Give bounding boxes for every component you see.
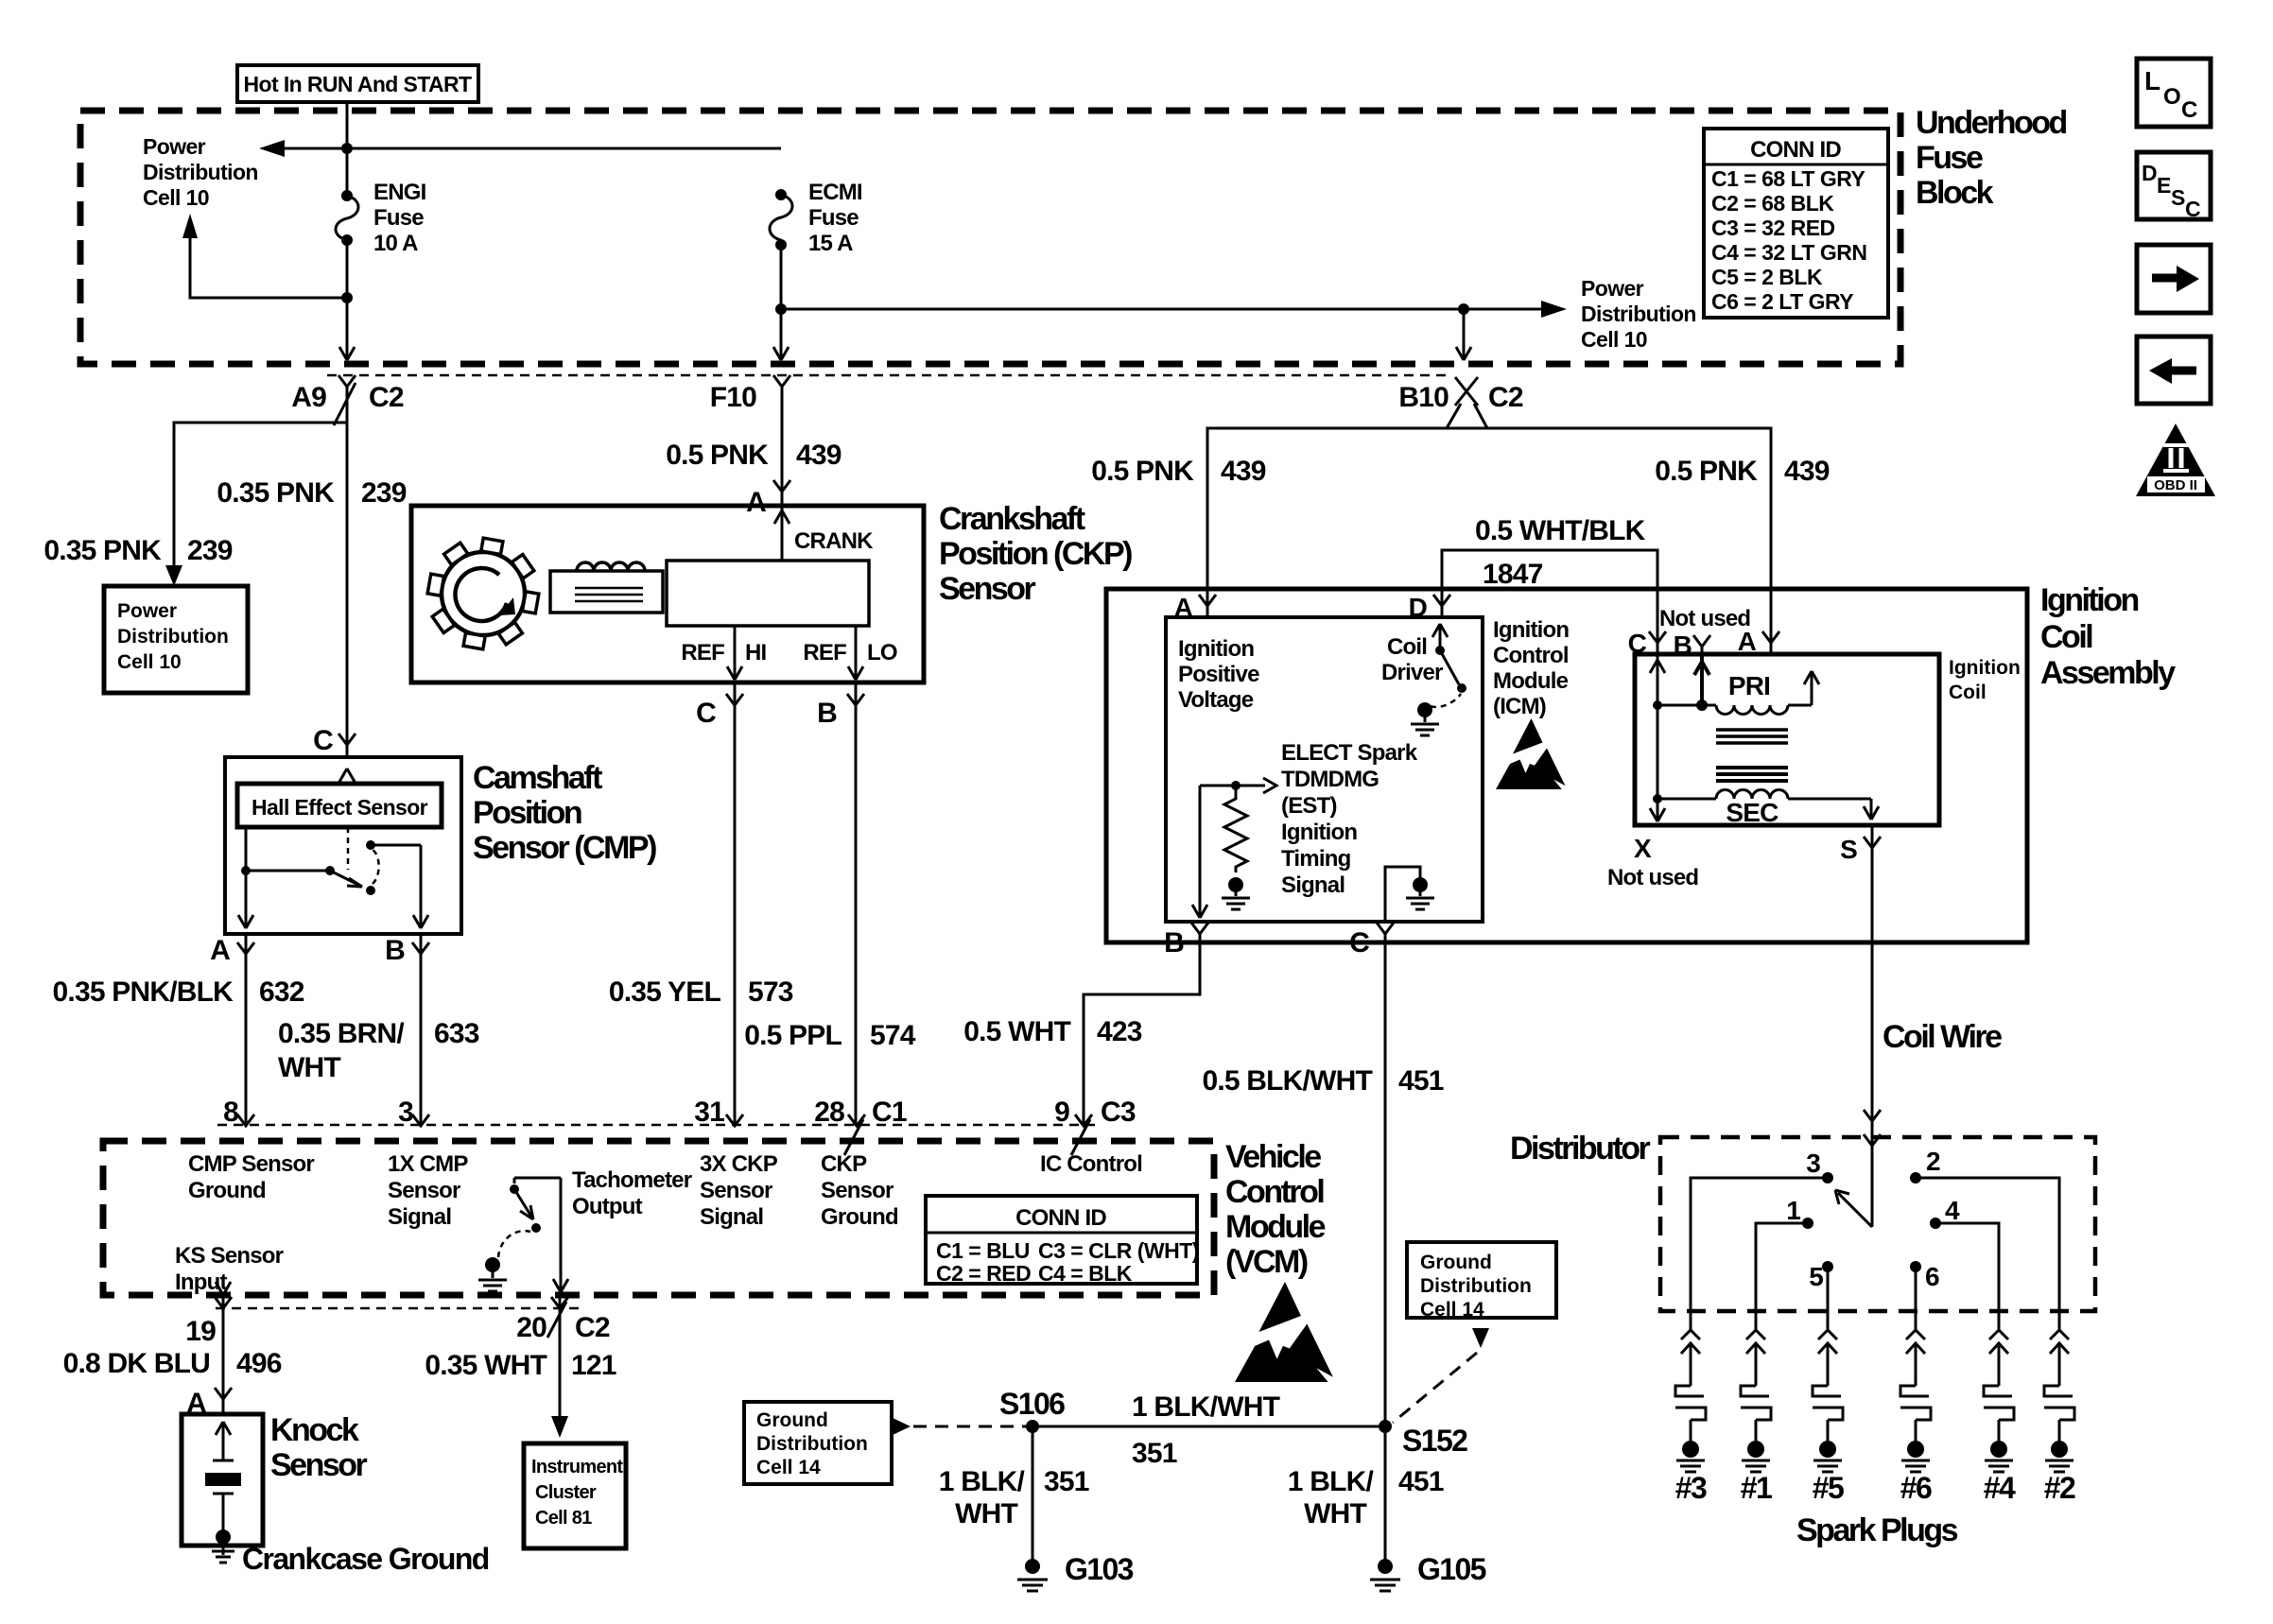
svg-text:6: 6 (1925, 1262, 1939, 1291)
svg-text:HI: HI (745, 640, 767, 665)
svg-text:B: B (1674, 631, 1692, 660)
svg-text:1: 1 (1786, 1196, 1800, 1225)
spark plug #6 (1900, 1330, 1932, 1505)
svg-text:#2: #2 (2044, 1471, 2075, 1505)
svg-text:Power: Power (1581, 276, 1644, 301)
thin dashed connector line below VCM (216, 1307, 581, 1310)
svg-text:0.35 WHT: 0.35 WHT (425, 1350, 547, 1381)
tachometer output switch (553, 1178, 568, 1292)
svg-text:Tachometer: Tachometer (572, 1167, 692, 1193)
svg-text:S: S (2171, 185, 2185, 210)
ground G105 (1378, 1559, 1393, 1574)
connector C (CMP) (338, 734, 356, 745)
svg-text:ENGI: ENGI (373, 180, 426, 205)
connector D (ICM) (1433, 595, 1450, 606)
arrow from Ground Distribution (893, 1418, 911, 1435)
svg-text:Control: Control (1225, 1174, 1324, 1210)
svg-text:C3 = 32 RED: C3 = 32 RED (1711, 216, 1835, 240)
svg-text:IC Control: IC Control (1040, 1151, 1142, 1177)
icon right-arrow box (2137, 245, 2211, 313)
fuse ECMI 15A (775, 189, 787, 200)
svg-text:Voltage: Voltage (1178, 687, 1254, 713)
svg-text:E: E (2157, 173, 2171, 198)
pickup coil icon (550, 571, 663, 613)
svg-text:1 BLK/: 1 BLK/ (1288, 1466, 1375, 1497)
spark plug #4 (1984, 1330, 2016, 1505)
svg-text:1847: 1847 (1483, 559, 1543, 590)
svg-text:C: C (2181, 97, 2197, 123)
svg-text:C2 = RED: C2 = RED (936, 1261, 1031, 1286)
svg-text:Coil: Coil (1387, 634, 1427, 660)
wire 0.5 BLK/WHT 451 to S152 (1384, 934, 1387, 1426)
svg-text:15 A: 15 A (808, 231, 853, 256)
svg-text:C: C (2185, 197, 2200, 221)
wire horizontal feed to ECMI (282, 147, 781, 150)
svg-text:(EST): (EST) (1281, 793, 1337, 819)
svg-text:#4: #4 (1984, 1471, 2016, 1505)
svg-text:Module: Module (1493, 668, 1569, 694)
svg-text:451: 451 (1398, 1466, 1444, 1497)
svg-text:20: 20 (516, 1312, 547, 1343)
svg-text:Position: Position (473, 795, 581, 831)
icon LOC box (2137, 59, 2211, 127)
wire left branch 0.5 PNK 439 to ICM pin A (1206, 428, 1209, 617)
arrow into Instrument Cluster (551, 1416, 568, 1438)
svg-text:0.8 DK BLU: 0.8 DK BLU (63, 1348, 210, 1379)
svg-text:Ground: Ground (756, 1409, 828, 1431)
Underhood Fuse Block dashed box (80, 111, 1900, 364)
wire contact 3 to plug (1691, 1178, 1828, 1330)
svg-text:Assembly: Assembly (2040, 655, 2176, 691)
fuse ENGI 10A (341, 190, 353, 201)
svg-text:C1 = 68 LT GRY: C1 = 68 LT GRY (1711, 166, 1865, 191)
svg-text:CONN ID: CONN ID (1750, 137, 1841, 163)
svg-text:351: 351 (1044, 1466, 1089, 1497)
svg-text:439: 439 (1784, 456, 1830, 487)
svg-text:Coil: Coil (1949, 682, 1987, 703)
svg-text:1 BLK/: 1 BLK/ (939, 1466, 1026, 1497)
svg-text:5: 5 (1809, 1262, 1823, 1291)
svg-text:3X CKP: 3X CKP (700, 1151, 778, 1177)
svg-text:2: 2 (1926, 1147, 1940, 1176)
svg-text:C: C (1628, 629, 1647, 658)
wire EST to pin B (1192, 786, 1207, 918)
wire contact 2 to plug (1916, 1178, 2059, 1330)
svg-text:F10: F10 (710, 382, 756, 413)
wire contact 5 to plug (1827, 1267, 1830, 1330)
svg-text:C2: C2 (369, 382, 404, 413)
connector pin 9/C3 (1071, 1114, 1092, 1155)
wire 0.5 WHT 423 to pin 9/C3 (1084, 934, 1200, 1126)
Hot In RUN And START box (237, 65, 478, 102)
svg-text:ECMI: ECMI (808, 180, 862, 205)
svg-text:Signal: Signal (700, 1204, 763, 1230)
svg-text:CMP Sensor: CMP Sensor (188, 1151, 314, 1177)
svg-text:#1: #1 (1741, 1471, 1772, 1505)
svg-text:Not used: Not used (1607, 865, 1698, 890)
svg-text:#3: #3 (1675, 1471, 1707, 1505)
svg-text:Crankshaft: Crankshaft (939, 501, 1085, 537)
svg-text:LO: LO (867, 640, 897, 665)
SEC winding (1657, 798, 1716, 801)
wire 1 BLK/WHT 351 (S106 to S152) (1032, 1425, 1385, 1428)
svg-text:Distribution: Distribution (1420, 1275, 1532, 1297)
arrow into box edge at B10 (1456, 314, 1471, 360)
right Ground Distribution Cell 14 box (1407, 1242, 1556, 1318)
connector A (CMP) (237, 934, 254, 1126)
svg-text:Power: Power (143, 134, 206, 159)
svg-text:4: 4 (1945, 1196, 1960, 1225)
connector S (coil) (1864, 837, 1881, 848)
svg-text:0.5 PNK: 0.5 PNK (1655, 456, 1758, 487)
ESD symbol (ICM) (1496, 718, 1566, 789)
svg-text:A: A (1738, 627, 1757, 656)
ICM box (1166, 617, 1483, 922)
svg-text:Cell 10: Cell 10 (1581, 327, 1647, 352)
svg-text:C2: C2 (575, 1312, 610, 1343)
svg-text:3: 3 (1806, 1149, 1820, 1178)
svg-text:Fuse: Fuse (808, 205, 859, 231)
arrow into box edge at A9 (339, 347, 355, 360)
svg-text:Ground: Ground (1420, 1252, 1492, 1273)
svg-text:Camshaft: Camshaft (473, 760, 602, 796)
svg-text:Ground: Ground (821, 1204, 898, 1230)
svg-text:Hall Effect Sensor: Hall Effect Sensor (252, 795, 428, 820)
svg-text:Power: Power (117, 600, 177, 622)
svg-text:OBD II: OBD II (2154, 477, 2197, 493)
svg-text:WHT: WHT (955, 1498, 1017, 1529)
wire contact 6 to plug (1915, 1267, 1917, 1330)
svg-text:Spark Plugs: Spark Plugs (1796, 1512, 1958, 1548)
connector B (ICM out) (1191, 923, 1208, 934)
svg-text:Signal: Signal (388, 1204, 451, 1230)
connector pin 19 (215, 1282, 232, 1390)
svg-text:Positive: Positive (1178, 662, 1259, 687)
svg-text:3: 3 (398, 1097, 413, 1128)
svg-text:G103: G103 (1065, 1552, 1134, 1586)
wire contact 4 to plug (1935, 1223, 1999, 1330)
svg-text:Sensor (CMP): Sensor (CMP) (473, 830, 656, 866)
wire REF LO inside box (848, 626, 863, 680)
wire branch to Power Distribution box (174, 423, 347, 565)
svg-text:Cell 81: Cell 81 (535, 1508, 592, 1529)
wire F10 to CKP pin A (0.5 PNK 439) (781, 387, 784, 561)
svg-text:Distribution: Distribution (117, 626, 229, 648)
EST arrow and resistor (1200, 778, 1276, 793)
svg-text:Control: Control (1493, 643, 1569, 668)
CKP sensor body rect (667, 561, 869, 626)
dashed wire to S152 (1393, 1353, 1477, 1423)
svg-text:Coil Wire: Coil Wire (1883, 1019, 2002, 1055)
svg-text:A: A (210, 935, 230, 966)
wire ECMI fuse down to F10 (780, 249, 783, 357)
connector A (knock sensor) (215, 1388, 232, 1414)
svg-text:Timing: Timing (1281, 846, 1351, 872)
svg-text:0.5 BLK/WHT: 0.5 BLK/WHT (1202, 1065, 1372, 1097)
wire A9 down to CMP pin C (0.35 PNK 239) (346, 387, 349, 757)
svg-text:Position (CKP): Position (CKP) (939, 536, 1132, 572)
arrow below Ground Distribution (1472, 1328, 1489, 1348)
svg-text:1 BLK/WHT: 1 BLK/WHT (1132, 1391, 1280, 1423)
svg-text:A: A (746, 487, 766, 518)
svg-text:C5 = 2 BLK: C5 = 2 BLK (1711, 265, 1823, 289)
svg-text:Ignition: Ignition (1493, 617, 1569, 643)
svg-text:0.5 PNK: 0.5 PNK (666, 440, 769, 471)
svg-text:0.35 PNK/BLK: 0.35 PNK/BLK (53, 976, 234, 1008)
Power Distribution Cell 10 box (104, 586, 248, 693)
svg-text:C6 = 2 LT GRY: C6 = 2 LT GRY (1711, 289, 1853, 314)
reluctor gear icon (427, 538, 539, 649)
svg-text:C1: C1 (872, 1097, 907, 1128)
ground G103 (1025, 1559, 1040, 1574)
svg-text:Knock: Knock (270, 1412, 359, 1448)
ESD symbol (VCM) (1235, 1282, 1333, 1382)
crankcase ground (216, 1529, 231, 1545)
svg-text:WHT: WHT (1304, 1498, 1366, 1529)
up arrow to Power Distribution label (182, 214, 198, 238)
svg-text:0.35 PNK: 0.35 PNK (217, 477, 335, 509)
node junction dot ECMI branch (775, 303, 787, 315)
svg-text:Distribution: Distribution (1581, 302, 1696, 326)
spark plug #2 (2044, 1330, 2075, 1505)
connector A (CKP) (773, 480, 790, 492)
svg-text:Underhood: Underhood (1916, 105, 2067, 141)
arrow into Power Distribution box (165, 565, 182, 586)
svg-text:Cell 10: Cell 10 (143, 185, 209, 210)
connector A (ICM) (1199, 595, 1216, 606)
svg-text:B: B (1164, 927, 1184, 959)
svg-text:451: 451 (1398, 1065, 1444, 1097)
svg-text:REF: REF (803, 640, 846, 665)
Ignition Coil box (1635, 654, 1939, 825)
Hall Effect Sensor box (237, 784, 442, 827)
svg-text:ELECT Spark: ELECT Spark (1281, 740, 1418, 766)
node junction dot below ENGI fuse (341, 292, 353, 303)
svg-text:TDMDMG: TDMDMG (1281, 767, 1379, 792)
wire ECMI branch to B10 (781, 308, 1464, 311)
svg-text:Sensor: Sensor (821, 1178, 894, 1203)
svg-text:SEC: SEC (1726, 798, 1778, 827)
svg-text:#5: #5 (1813, 1471, 1844, 1505)
CMP internal switch (347, 827, 350, 870)
svg-text:Fuse: Fuse (1916, 140, 1983, 176)
wire REF HI inside box (727, 626, 742, 680)
coil C leg wire (1650, 654, 1665, 821)
arrow to Power Distribution Cell 10 (left) (259, 140, 285, 157)
svg-text:351: 351 (1132, 1438, 1177, 1469)
svg-text:Output: Output (572, 1194, 643, 1219)
Distributor dashed box (1660, 1137, 2095, 1311)
wire S106 to G103 (1032, 1426, 1034, 1560)
wire S152 to G105 (1384, 1426, 1387, 1560)
svg-text:WHT: WHT (278, 1052, 340, 1083)
svg-text:Ignition: Ignition (2040, 582, 2138, 618)
svg-text:0.35 PNK: 0.35 PNK (43, 535, 162, 566)
svg-text:#6: #6 (1900, 1471, 1932, 1505)
svg-text:C3: C3 (1101, 1097, 1136, 1128)
svg-text:Coil: Coil (2040, 619, 2092, 655)
CKP sensor box (411, 506, 924, 682)
svg-text:Instrument: Instrument (531, 1457, 623, 1477)
VCM dashed box (103, 1141, 1214, 1295)
svg-text:C2: C2 (1488, 382, 1523, 413)
svg-text:Ignition: Ignition (1178, 636, 1254, 662)
svg-text:Block: Block (1916, 175, 1994, 211)
svg-text:B10: B10 (1398, 382, 1449, 413)
wire from Hot box down (346, 102, 349, 192)
svg-text:X: X (1634, 834, 1652, 863)
connector B10/C2 (1455, 377, 1478, 406)
coil wire to distributor (1871, 825, 1874, 1227)
ICM internal ground at pin C (1385, 867, 1420, 922)
svg-text:Distribution: Distribution (756, 1433, 868, 1455)
connector B (CMP) (412, 934, 429, 1126)
svg-text:Distributor: Distributor (1510, 1131, 1651, 1166)
distributor contacts (1822, 1172, 1833, 1183)
left Ground Distribution Cell 14 box (744, 1402, 892, 1484)
svg-text:C4 = 32 LT GRN: C4 = 32 LT GRN (1711, 240, 1866, 265)
svg-text:0.5 WHT: 0.5 WHT (963, 1016, 1070, 1047)
transformer core (1716, 730, 1788, 743)
svg-text:1X CMP: 1X CMP (388, 1151, 468, 1177)
svg-text:Module: Module (1225, 1209, 1326, 1245)
connector B (coil) (1693, 635, 1710, 654)
connector at distributor cap (1864, 1110, 1881, 1146)
svg-text:0.5 PPL: 0.5 PPL (744, 1020, 842, 1051)
svg-text:10 A: 10 A (373, 231, 418, 256)
svg-text:C4 = BLK: C4 = BLK (1038, 1261, 1133, 1286)
wire contact 1 to plug (1756, 1223, 1808, 1330)
svg-text:C3 = CLR (WHT): C3 = CLR (WHT) (1038, 1238, 1199, 1263)
svg-text:8: 8 (223, 1097, 238, 1128)
spark plug #5 (1813, 1330, 1844, 1505)
svg-text:19: 19 (185, 1316, 216, 1347)
knock sensor box (182, 1414, 263, 1546)
connector pin 20/C2 (547, 1295, 568, 1416)
svg-text:121: 121 (571, 1350, 616, 1381)
wire coil driver loop 0.5 WHT/BLK 1847 (1442, 550, 1657, 654)
svg-text:Ignition: Ignition (1949, 657, 2021, 679)
coil driver switch (1432, 624, 1448, 650)
icon left-arrow box (2137, 337, 2211, 404)
svg-text:(VCM): (VCM) (1225, 1244, 1308, 1280)
svg-text:S106: S106 (999, 1387, 1065, 1421)
PRI winding (1657, 704, 1716, 707)
svg-text:KS Sensor: KS Sensor (175, 1243, 284, 1269)
svg-text:Ignition: Ignition (1281, 820, 1357, 845)
arrow up into CMP box (339, 769, 355, 782)
connector pin 31 (726, 1114, 743, 1126)
svg-text:496: 496 (236, 1348, 282, 1379)
svg-text:0.35 BRN/: 0.35 BRN/ (278, 1018, 405, 1049)
svg-text:O: O (2163, 84, 2180, 110)
svg-text:31: 31 (694, 1097, 724, 1128)
knock sensor element (216, 1422, 231, 1460)
svg-text:A9: A9 (291, 382, 326, 413)
splice S152 (1379, 1420, 1392, 1433)
connector C (CKP) (726, 682, 743, 1126)
connector B (CKP) (847, 682, 864, 1126)
svg-text:632: 632 (259, 976, 304, 1008)
svg-text:439: 439 (1221, 456, 1266, 487)
svg-text:G105: G105 (1417, 1552, 1486, 1586)
svg-text:C: C (696, 698, 716, 729)
svg-text:Vehicle: Vehicle (1225, 1139, 1321, 1175)
svg-text:Sensor: Sensor (388, 1178, 460, 1203)
svg-text:B: B (385, 935, 405, 966)
svg-text:C: C (1349, 927, 1369, 959)
svg-text:Ground: Ground (188, 1178, 266, 1203)
svg-text:CKP: CKP (821, 1151, 867, 1177)
svg-text:Fuse: Fuse (373, 205, 424, 231)
connector A (coil) (1762, 631, 1779, 643)
svg-text:PRI: PRI (1728, 671, 1770, 700)
svg-text:(ICM): (ICM) (1493, 694, 1546, 719)
svg-text:Signal: Signal (1281, 872, 1345, 898)
svg-text:Crankcase Ground: Crankcase Ground (242, 1542, 489, 1576)
connector A9/C2 (334, 375, 356, 425)
svg-text:Driver: Driver (1381, 660, 1443, 685)
arrow into box edge at F10 (773, 347, 789, 360)
svg-text:Sensor: Sensor (700, 1178, 772, 1203)
svg-text:Hot In RUN And START: Hot In RUN And START (244, 72, 473, 96)
wire ENGI fuse to A9 (346, 244, 349, 357)
svg-text:Cell 14: Cell 14 (1420, 1299, 1484, 1321)
CONN ID table (VCM) (926, 1196, 1197, 1284)
connector pin 8 (237, 1114, 254, 1126)
svg-text:D: D (2142, 161, 2157, 185)
icon OBD II triangle (2136, 423, 2215, 496)
svg-text:S152: S152 (1402, 1424, 1467, 1458)
svg-text:Cluster: Cluster (535, 1482, 597, 1503)
connector F10 (773, 375, 790, 387)
Ignition Coil Assembly box (1106, 589, 2027, 942)
svg-text:Cell 10: Cell 10 (117, 651, 182, 673)
Instrument Cluster Cell 81 box (524, 1443, 626, 1548)
svg-text:S: S (1840, 835, 1857, 864)
coil B leg wire (1694, 654, 1709, 705)
svg-text:CRANK: CRANK (794, 528, 874, 554)
connector C (coil) (1649, 631, 1666, 643)
svg-text:0.5 WHT/BLK: 0.5 WHT/BLK (1475, 515, 1646, 546)
svg-text:28: 28 (814, 1097, 844, 1128)
svg-text:Cell 14: Cell 14 (756, 1457, 821, 1478)
svg-text:CONN ID: CONN ID (1015, 1205, 1106, 1231)
thin dashed connector line under fuse block (327, 374, 1452, 377)
svg-text:B: B (817, 698, 837, 729)
wire right branch 0.5 PNK 439 to coil pin A (1770, 428, 1773, 654)
arrow up into CKP box (774, 510, 789, 524)
svg-text:Sensor: Sensor (270, 1447, 368, 1483)
connector pin 3 (412, 1114, 429, 1126)
thin dashed connector line above VCM (217, 1124, 1102, 1127)
node junction dot at B10 top (1458, 303, 1469, 315)
dashed wire to S106 (913, 1425, 1027, 1428)
splice S106 (1026, 1420, 1039, 1433)
rotor arm (1835, 1190, 1872, 1227)
wire split bus from B10 (1207, 404, 1771, 515)
svg-text:633: 633 (434, 1018, 479, 1049)
svg-text:Sensor: Sensor (939, 571, 1036, 607)
svg-text:C: C (313, 725, 333, 756)
svg-text:C1 = BLU: C1 = BLU (936, 1238, 1030, 1263)
svg-text:0.5 PNK: 0.5 PNK (1091, 456, 1194, 487)
svg-text:0.35 YEL: 0.35 YEL (609, 976, 721, 1008)
svg-text:9: 9 (1054, 1097, 1069, 1128)
connector pin 28/C1 (844, 1114, 865, 1155)
svg-text:Distribution: Distribution (143, 160, 258, 184)
CONN ID table (fuse block) (1704, 129, 1888, 318)
